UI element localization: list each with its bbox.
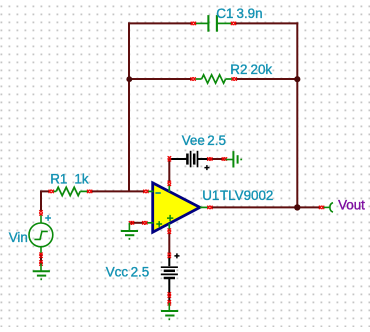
pin marker Vin ground [39, 260, 43, 265]
pin marker C1 left [191, 22, 196, 26]
capacitor C1 [195, 15, 232, 32]
pin marker op-amp non-inverting input left [129, 221, 134, 225]
wire: right vertical from top corner down to output node [296, 22, 298, 207]
ground below Vin [33, 264, 50, 280]
pin marker op-amp V+ pin [168, 229, 172, 234]
pin marker op-amp inverting input [143, 190, 148, 194]
op-amp U1 TLV9002 [153, 183, 200, 232]
resistor R1 [54, 187, 89, 195]
wire: C1 right to top-right corner [235, 22, 298, 24]
op-amp input stubs [147, 185, 208, 232]
svg-text:C1: C1 [216, 6, 233, 21]
wire: output node to terminal [297, 206, 320, 208]
pin marker output terminal [319, 206, 324, 210]
junction node at output [294, 204, 300, 210]
svg-text:Vcc: Vcc [106, 265, 129, 280]
pin marker op-amp V- pin [168, 181, 172, 186]
svg-text:Vout: Vout [338, 198, 365, 213]
ground at non-inverting input [121, 223, 138, 239]
pin marker C1 right [231, 22, 236, 26]
ground right of Vee battery (rotated) [226, 151, 242, 167]
pin marker Vin bottom [39, 253, 43, 258]
svg-text:TLV9002: TLV9002 [220, 188, 273, 203]
pin marker R2 right [232, 77, 237, 81]
output terminal bracket [330, 203, 333, 212]
wire: Vin bottom pin to ground pin [40, 255, 42, 264]
plus mark of Vin [45, 215, 51, 221]
wire: Vee battery plus lead to ground [210, 158, 225, 160]
pin marker R2 left [191, 77, 196, 81]
op-amp positive supply mark [167, 215, 173, 221]
pin marker R1 right [87, 190, 92, 194]
op-amp inverting input mark [155, 192, 160, 194]
svg-text:Vee: Vee [182, 133, 205, 148]
svg-text:R1: R1 [50, 172, 67, 187]
pin marker Vee corner [168, 156, 172, 161]
wire: inverting-node vertical from top corner down to R1 line [128, 22, 130, 191]
voltage source Vin [29, 215, 53, 255]
svg-text:3.9n: 3.9n [237, 6, 263, 21]
svg-text:20k: 20k [251, 62, 273, 77]
svg-text:U1: U1 [202, 188, 219, 203]
resistor R2 [196, 75, 233, 83]
wire: R1 right to op-amp inverting input [92, 190, 145, 192]
battery Vcc 2.5 [161, 255, 178, 295]
pin marker Vin top [39, 210, 43, 215]
plus mark of Vee battery [204, 165, 209, 170]
pin marker op-amp output [207, 206, 212, 210]
ground below Vcc battery [161, 303, 178, 319]
wire: R2 line right segment [236, 78, 297, 80]
pin marker op-amp non-inverting input right [142, 221, 147, 225]
pin marker R1 left [49, 190, 54, 194]
wire: op-amp V+ pin down to Vcc battery [168, 232, 170, 256]
output terminal lead [324, 206, 331, 208]
pin marker Vcc plus lead [168, 253, 172, 258]
wire: top feedback left segment to C1 [128, 22, 192, 24]
pin marker Vee plus lead [207, 157, 212, 161]
wire: Vee battery down to op-amp V- pin [168, 159, 170, 182]
pin marker Vcc ground [168, 300, 172, 305]
svg-text:2.5: 2.5 [131, 265, 150, 280]
junction node at inverting summing point (R2 left) [126, 76, 132, 82]
op-amp non-inverting input mark [156, 221, 162, 227]
junction node at R2 right / right vertical [294, 76, 300, 82]
wire: op-amp output to node [211, 206, 297, 208]
svg-text:R2: R2 [230, 62, 247, 77]
plus mark of Vcc battery [174, 253, 179, 258]
svg-text:1k: 1k [74, 172, 88, 187]
battery Vee 2.5 [169, 151, 208, 168]
wire: R2 line left segment [129, 78, 191, 80]
wire: non-inverting input to ground [131, 222, 145, 224]
wire: Vin up to R1 (corner) [41, 191, 49, 211]
pin marker Vcc minus lead [168, 292, 172, 297]
svg-text:Vin: Vin [9, 230, 28, 245]
pin marker Vee ground [222, 157, 227, 161]
wire: Vcc battery minus lead to ground [168, 295, 170, 303]
svg-text:2.5: 2.5 [207, 133, 226, 148]
